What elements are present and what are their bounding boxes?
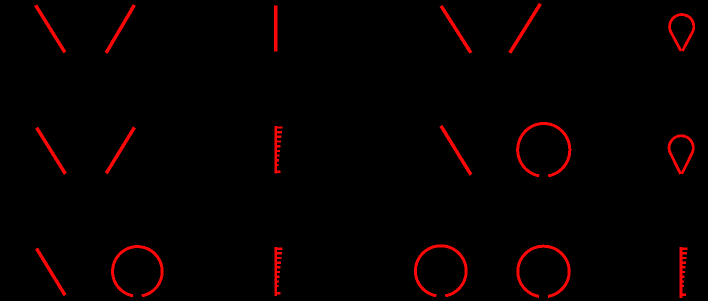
bond highlight: row1 left V right arm: [106, 5, 134, 53]
bond highlight: row1 right V left arm: [441, 6, 471, 53]
bond highlight: row1 left V left arm: [36, 5, 65, 52]
bond highlight: row2 left V right arm: [106, 127, 134, 173]
atom lasso teardrop 2 (middle far right): [669, 136, 693, 174]
atom circle O (bottom left), gap at bottom: [113, 247, 163, 296]
atom lasso teardrop 1 (top right): [670, 15, 694, 51]
bond highlight: row2 right backslash: [441, 126, 471, 175]
bond highlight: row1 right V right arm: [510, 4, 541, 53]
bond highlight: row3 left backslash: [37, 248, 66, 295]
atom circle O (middle right), gap at bottom: [518, 124, 570, 176]
bond highlight: row2 left V left arm: [37, 128, 66, 174]
atom circle O (bottom right 1), gap at bottom: [415, 246, 466, 296]
bond highlight: row1 middle vertical bond: [274, 6, 277, 52]
hashed wedge bond + solid bond (row2 middle): [274, 126, 282, 174]
hashed wedge bond + solid bond (row3 middle): [274, 247, 282, 296]
atom circle O (bottom right 2), gap at bottom: [518, 246, 569, 296]
hashed wedge bond + solid bond (row3 far right): [680, 247, 688, 298]
